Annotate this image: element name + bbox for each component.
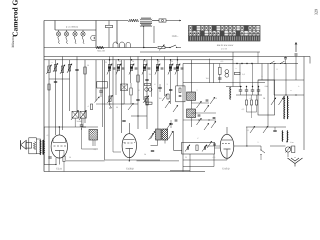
svg-text:220V~: 220V~ [172,35,179,38]
wire V x116 [115,60,117,95]
transformer box X [121,84,128,91]
resistor R19 [256,100,258,105]
wire bus B2 [44,56,310,58]
wire V x104.7 [104,60,106,160]
svg-text:8: 8 [139,89,140,92]
wire V x109.6 [109,57,111,105]
svg-text:b: b [262,75,263,78]
trimmer C14 [169,131,174,139]
resistor R4 [68,65,70,72]
wire V1 cathode down [58,158,60,165]
transformer T2 core [41,140,43,155]
node mains junction [143,47,144,48]
wire long y161 mid [137,160,180,162]
wire bottom ground bus [44,171,205,173]
trimmer C38 [211,121,216,128]
coil L13 pair [145,88,149,92]
wire V x252 [251,64,253,87]
capacitor C15 [145,79,148,80]
tube V3 electrodes [222,143,230,145]
svg-text:L: L [298,85,300,88]
svg-text:25: 25 [105,61,107,64]
wire V x55.5 [55,60,57,135]
wire V x246 low [246,127,248,146]
trimmer C1 [48,66,50,73]
wire box out [215,147,221,149]
svg-text:0,5: 0,5 [213,156,216,159]
wire V x258 [257,52,259,64]
wire xfmr bottom [43,155,45,165]
capacitor C6 [54,81,57,82]
wire heater chain [44,47,96,49]
capacitor C31 [169,89,172,90]
wire V1 anode [58,127,60,135]
resistor R2 [106,25,113,27]
winding L12 [286,131,289,142]
capacitor C21 [218,78,221,79]
wire lamp bus [55,29,96,31]
wire V x69.5 [69,60,71,111]
wire left border [43,21,45,172]
trimmer C32 [162,94,167,101]
wire speaker top [36,138,40,140]
wire x113 down [112,140,114,152]
svg-text:w: w [290,90,292,92]
wire right h1 [258,79,304,81]
wire bus B4 [183,63,298,65]
transformer T2 primary [39,140,42,155]
trimmer cluster TC4 [143,65,145,71]
svg-text:3: 3 [167,83,168,86]
wire V x177.2 [176,57,178,87]
diag arrow D2 [149,133,154,140]
wire xfmr top [43,127,45,140]
UKW box [176,86,185,102]
wire h y127 ext [59,126,98,128]
speaker magnet [26,143,32,149]
transformer T2 secondary [43,140,46,155]
resistor R1 mains dropper [128,19,139,22]
svg-text:25: 25 [158,60,160,63]
wire V x85 [84,60,86,123]
capacitor bank [239,90,242,91]
wire V2 anode [128,123,130,134]
trimmer cluster TC2 [117,65,119,71]
wire box feed [95,60,97,101]
IF can L3 [156,129,162,140]
svg-text:a: a [52,62,53,64]
wire box drop [189,154,191,172]
wire V x151.4 [150,57,152,97]
trimmer C8 [95,97,100,103]
svg-text:1M: 1M [159,97,162,100]
svg-text:2M: 2M [149,73,152,76]
wire h y96.8 [143,96,151,98]
svg-text:AM 8C KW UKW: AM 8C KW UKW [217,44,234,47]
wire right bottom [288,156,295,158]
wire V1 top link [44,126,59,128]
wire mid bus [183,82,265,84]
trimmer C25 [271,98,276,106]
wire V x164.3 [163,57,165,97]
trimmer C42 [207,141,212,148]
capacitor C5 [75,69,78,70]
svg-text:50: 50 [215,97,217,100]
box part R13 [196,145,198,151]
potentiometer P3 [109,96,111,102]
node Urz [286,141,287,142]
wire V x304 [303,57,305,151]
wire gang right leg [82,118,84,127]
IF can L2 [89,130,98,141]
lamp La3 dial lamp [73,32,77,36]
wire V x262 [261,64,263,81]
svg-text:1M: 1M [206,77,209,80]
ground chassis [288,158,303,164]
resistor R5 [84,67,86,74]
resistor R10 [146,98,148,105]
speaker LS1 [21,140,27,149]
wire link y120 [183,119,216,121]
voice coil zigzag [33,142,35,150]
wire V x147 [146,60,148,129]
coil L6 hatched [187,109,196,118]
svg-text:Camerod G: Camerod G [11,0,20,37]
tuning gang C10 [80,111,86,118]
tuning gang C9 [72,111,79,118]
svg-text:0,2: 0,2 [242,108,245,111]
wire V x77 [76,57,78,112]
capacitor C29 [273,130,276,131]
wire v3 to right [234,145,261,147]
tube V1 grid [54,145,67,147]
trimmer C2 [54,65,56,72]
wire windings top [282,119,284,131]
wire mains to switch [144,47,157,49]
capacitor C34 [169,123,172,124]
capacitor C30 [158,87,161,88]
band switch table frame [189,26,261,42]
wire speaker bottom [36,153,40,155]
capacitor C18 [122,120,125,121]
resistor R11 [219,67,222,74]
capacitor C24 [284,58,287,59]
winding L11 [281,131,284,142]
winding L9 [283,96,286,119]
trimmer C3 [61,66,63,73]
wire mains arrow [166,20,181,22]
svg-text:2: 2 [197,89,198,92]
band switch table crosses [189,26,260,35]
lamp La1 dial lamp [56,32,60,36]
wire link [49,78,70,80]
wire mid h4 [236,94,262,96]
diode D1 [109,104,112,108]
band switch table grid [189,26,261,36]
IF can L4 [162,129,168,140]
wire V x157.9 [157,60,159,129]
resistor R15 [146,102,152,104]
wire lamp bus drop [95,21,97,48]
svg-text:0,1: 0,1 [119,60,122,63]
resistor R16 [90,104,92,110]
wire V x113 [112,57,114,141]
trimmer cluster TC7 [176,65,178,71]
svg-text:a: a [236,68,237,70]
resistor R3 zigzag [96,46,104,49]
wire bus B3 [44,59,233,61]
wire link y103 [191,102,209,104]
potentiometer P1 [158,46,165,48]
wire top box right [116,21,118,45]
wire V x209 [208,59,210,83]
svg-text:0,1: 0,1 [145,60,148,63]
rect part [292,146,295,153]
trimmer C16 [128,103,134,110]
svg-text:5k: 5k [144,153,146,156]
wire mid h2 [131,115,147,117]
capacitor C33 [151,150,154,151]
svg-text:UAF42: UAF42 [222,167,230,170]
band switch table dark strip [189,36,261,41]
svg-text:UCH42: UCH42 [126,167,134,170]
trimmer C41 [166,123,171,130]
trimmer C20 [197,118,202,125]
wire tube3 grid [205,145,220,147]
trimmer C27 [250,126,255,133]
box part C23 [204,146,205,149]
svg-text:4: 4 [250,97,251,100]
trimmer C40 [173,105,178,112]
svg-text:4×U 50: 4×U 50 [221,47,227,50]
svg-text:5: 5 [258,141,259,144]
lamp La4 dial lamp [81,32,85,36]
wire h y104 [96,103,124,105]
switch S2 mains [170,45,176,48]
svg-text:Urz: Urz [291,141,294,144]
svg-text:329: 329 [314,9,319,15]
resistor R9 [130,88,132,95]
svg-text:50: 50 [87,64,89,67]
svg-text:30: 30 [116,106,118,109]
svg-text:6: 6 [155,83,156,86]
wire to power switch [165,47,170,49]
switch S1 bank [113,42,118,47]
tube V3 envelope [220,134,234,158]
trimmer cluster TC1 [108,65,110,71]
trimmer C26 [279,98,284,106]
wire V x49 [48,60,50,172]
wire V x296 [295,64,297,81]
right box [258,80,275,115]
wire V x130.5 [130,57,132,84]
svg-text:0,5: 0,5 [221,60,224,63]
wire V x183 [182,64,184,172]
band switch table solid cells [193,26,197,31]
antenna stem caps [295,54,298,55]
lamp La5 scale [285,147,290,152]
connector phone jack [91,35,93,40]
wire V x268 [267,64,269,128]
wire mains segment [152,20,159,22]
wire can2 right leg [164,140,166,144]
wire lamp feed [54,21,56,31]
wire long low [183,166,214,168]
wire y107 right [252,107,283,109]
svg-text:25: 25 [185,156,187,159]
wire can leg2 [94,140,96,146]
wire bottom right seg [170,170,190,172]
wire V x191.3 [190,60,192,92]
resistor R8 [137,75,139,82]
resistor R12 [235,72,241,74]
wire right h2 [274,94,304,96]
capacitor C7 [99,91,102,92]
UKW parts [179,88,181,93]
wire right h3 [246,126,286,128]
wire cathode parts [55,158,57,165]
resistor R17 [246,100,248,105]
node dots bus [236,63,237,64]
coupling box L1 [97,82,108,89]
wire V3 anode [226,127,228,134]
trimmer C13 [151,131,156,139]
wire V x170.7 [170,60,172,104]
wire V x138 [137,57,139,130]
grid cap box [182,142,215,154]
wire V x121.6 [121,60,123,133]
winding L8 [229,87,232,100]
wire V x274 [273,64,275,96]
svg-text:4: 4 [88,105,89,108]
tube V2 electrodes [124,142,133,144]
svg-text:4 x U-Röhren: 4 x U-Röhren [66,26,79,29]
wire link y113 [191,112,216,114]
trimmer C4 [67,64,72,74]
antenna arrow [295,42,297,52]
wire bus right drop [309,57,311,64]
svg-text:S: S [276,68,277,71]
resistor R6 [48,84,50,90]
wire V x240 [239,64,241,87]
wire can drop [92,140,94,146]
wire link y112 [247,111,257,113]
svg-text:50: 50 [69,156,71,159]
svg-text:16: 16 [263,97,266,100]
wire V x173.7 [173,131,175,151]
wire mid h3 [226,86,242,88]
wire IF feed [138,128,147,130]
switch S3 [271,61,275,64]
wire V x213.6 [213,64,215,83]
resistor R7 [63,156,65,162]
winding L10 [286,96,289,119]
svg-text:UL41: UL41 [56,167,62,170]
svg-text:AM: AM [264,85,267,88]
svg-text:C: C [197,137,199,140]
trimmer C19 [197,101,202,108]
svg-text:50: 50 [171,60,173,63]
coil L7 dual [225,70,229,74]
trimmer cluster TC6 [169,65,171,71]
wire bottom link mid [105,159,160,161]
capacitor C11 [80,125,83,126]
tube V1 envelope [51,135,67,158]
box part C22 [187,146,188,149]
svg-text:2x500: 2x500 [77,120,82,123]
svg-text:50: 50 [132,60,134,63]
potentiometer P2 [145,97,147,103]
fuse Si1 [159,19,166,22]
wire V x62.5 [62,57,64,131]
switch S5 [261,150,265,153]
wire lamp down [287,152,289,157]
wire mains lower [96,47,144,49]
wire long y160.9 [66,160,105,162]
wire V2 cathode down [128,158,130,161]
trimmer C35 [204,105,209,112]
wire lamp left [270,145,285,147]
wire mains top line [44,20,128,22]
wire V x286 [285,64,287,96]
trimmer C37 [204,123,209,130]
trimmer C36 [210,97,215,104]
svg-text:0,1: 0,1 [47,134,50,137]
wire gang left leg [74,118,76,127]
resistor R18 [251,100,253,105]
wire bus B1 [140,51,260,53]
wire L5L6 link [190,100,192,109]
lamp La2 dial lamp [64,32,68,36]
svg-text:0,1: 0,1 [247,129,250,132]
trimmer C39 [165,101,170,108]
tube V2 envelope [122,134,136,158]
trimmer cluster TC3 [130,65,132,71]
capacitor C12 [48,157,51,158]
coil L5 hatched [187,92,196,100]
transformer T1 line choke [140,17,152,20]
wire mid h1 [122,103,138,105]
output transformer frame [29,138,37,154]
capacitor C17 [136,99,139,100]
trimmer cluster TC5 [156,65,158,71]
wire V x102.6 [102,60,104,127]
wire V x143.4 [142,60,144,100]
svg-text:0,1: 0,1 [242,73,245,76]
resistor R14 [145,83,151,85]
wire cap drop [81,128,83,149]
wire transformer drop [153,26,155,43]
svg-text:0,1: 0,1 [94,148,97,151]
wire ant drop [295,56,297,64]
switch S4 [281,61,285,64]
wire V x233 [232,52,234,87]
wire mains feeder drop [143,26,145,48]
wire can2 left leg [157,140,159,146]
wire V3 bottom wires [226,158,228,160]
svg-text:Netz 220: Netz 220 [97,50,105,53]
wire V x124.1 [123,60,125,104]
trimmer C28 [263,126,268,133]
